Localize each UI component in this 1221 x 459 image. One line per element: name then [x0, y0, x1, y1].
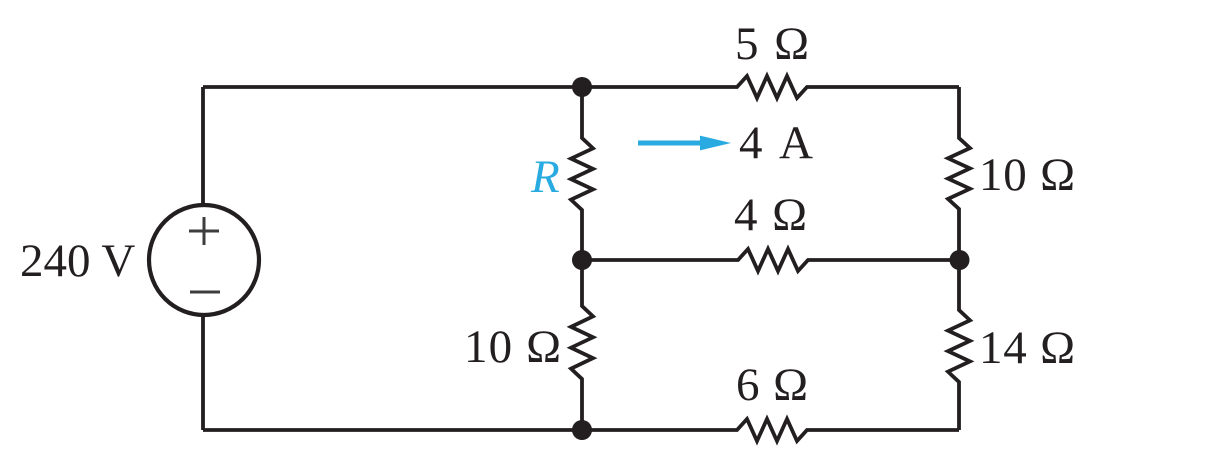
svg-text:R: R — [530, 151, 560, 203]
svg-text:10 Ω: 10 Ω — [464, 321, 561, 373]
svg-text:5 Ω: 5 Ω — [735, 18, 809, 70]
svg-text:240 V: 240 V — [20, 235, 135, 287]
svg-text:10 Ω: 10 Ω — [979, 149, 1075, 201]
svg-text:14 Ω: 14 Ω — [979, 322, 1075, 374]
svg-text:4 Ω: 4 Ω — [734, 189, 807, 241]
svg-text:6 Ω: 6 Ω — [736, 359, 808, 411]
